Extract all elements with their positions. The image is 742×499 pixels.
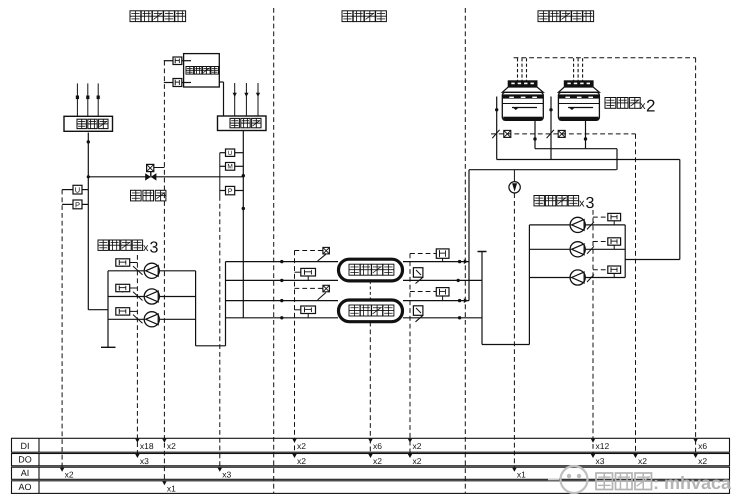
pump cooling CP1 bbox=[570, 217, 585, 232]
label table DO x2 at 370 bbox=[368, 454, 382, 466]
label table DO x3 at 593 bbox=[591, 454, 605, 466]
wire cond pipe p3 bbox=[403, 298, 469, 303]
label table DI x2 at 294 bbox=[292, 439, 306, 451]
node distributor box bbox=[64, 116, 113, 131]
svg-text:3: 3 bbox=[150, 240, 159, 257]
wire tower inlet header bbox=[497, 160, 680, 260]
pump cooling CP2 bbox=[570, 242, 585, 257]
label table DO x2 at 410 bbox=[408, 454, 422, 466]
wire tower fan drop (dashed) bbox=[695, 58, 697, 454]
svg-text:M: M bbox=[227, 164, 232, 171]
wire cooling pump CP1 discharge bbox=[585, 224, 625, 226]
wire return branch 2 bbox=[244, 83, 248, 116]
node expansion tank bbox=[184, 54, 220, 87]
wire chilled pipe p2 bbox=[226, 279, 339, 282]
chiller CH1 bbox=[339, 259, 403, 281]
svg-text:x: x bbox=[579, 198, 585, 210]
svg-text:x2: x2 bbox=[413, 441, 422, 451]
wire bypass valve control bbox=[154, 167, 165, 169]
wire cooling pump CP2 discharge bbox=[585, 248, 625, 250]
valve cond CH2 bbox=[413, 306, 423, 322]
wire pump suction header bbox=[528, 225, 530, 345]
sensor collector pressure bbox=[220, 186, 244, 195]
wire section divider left (dashed) bbox=[273, 8, 275, 493]
svg-text:x2: x2 bbox=[167, 441, 176, 451]
wire pump P2 suction bbox=[108, 296, 144, 298]
wire CT2 outlet pipe bbox=[584, 120, 587, 148]
wire cooling pumps control drop (dashed) bbox=[592, 210, 594, 454]
wire chiller control drop (dashed) bbox=[369, 322, 371, 454]
label chilled water pumps x3 bbox=[98, 240, 159, 257]
svg-text:x2: x2 bbox=[413, 456, 422, 466]
wire chilled sensors drop (dashed) bbox=[294, 251, 296, 454]
sensor supply pressure bbox=[62, 200, 88, 209]
wire chilled pipe p1 bbox=[226, 260, 339, 263]
svg-text:: mhvaca: : mhvaca bbox=[653, 473, 732, 493]
node table row AO bbox=[12, 481, 730, 494]
watermark wechat logo bbox=[548, 466, 588, 493]
sensor supply temperature bbox=[62, 185, 88, 194]
svg-text:2: 2 bbox=[646, 97, 655, 116]
wire collector sensors drop (dashed) bbox=[219, 196, 221, 467]
label table DI x6 at 696 bbox=[693, 439, 707, 451]
svg-text:x1: x1 bbox=[167, 483, 176, 493]
svg-text:x1: x1 bbox=[517, 470, 526, 480]
svg-text:x3: x3 bbox=[222, 470, 231, 480]
wire bypass pipe bbox=[87, 175, 244, 178]
wire cooling pump CP3 suction bbox=[529, 277, 570, 279]
cooling tower CT1 bbox=[502, 58, 543, 120]
svg-text:x6: x6 bbox=[698, 441, 707, 451]
wire supply sensors drop (dashed) bbox=[61, 190, 63, 468]
wire pump P1 suction bbox=[108, 270, 144, 272]
cooling tower CT2 bbox=[558, 58, 599, 120]
wire CT1 outlet pipe bbox=[533, 120, 536, 148]
label bypass valve bbox=[131, 190, 166, 201]
wire return header bbox=[242, 131, 245, 318]
svg-text:x2: x2 bbox=[65, 470, 74, 480]
wire chilled pipe p3 bbox=[226, 299, 339, 302]
svg-text:P: P bbox=[75, 200, 80, 209]
valve bypass V1 bbox=[145, 164, 156, 180]
wire supply header bbox=[87, 133, 90, 310]
pump chilled P3 bbox=[144, 312, 159, 327]
svg-text:DO: DO bbox=[18, 455, 32, 465]
label table DO x2 at 294 bbox=[292, 454, 306, 466]
valve CT1 inlet bbox=[492, 130, 511, 138]
wire CT2 inlet pipe bbox=[549, 97, 552, 160]
wire collector sensors drop bbox=[219, 153, 221, 196]
wire tower valve drop (dashed) bbox=[635, 134, 637, 454]
svg-text:U: U bbox=[75, 186, 80, 195]
wire valve control dashed 2 bbox=[295, 287, 323, 289]
label table DO x2 at 636 bbox=[633, 454, 647, 466]
wire cond pipe p1 bbox=[403, 259, 469, 264]
wire chilled pump drop (dashed) bbox=[136, 255, 138, 454]
sensor collector sensor2 bbox=[220, 163, 244, 171]
wire tower outlet header bbox=[535, 149, 617, 170]
wire cond sensors drop (dashed) bbox=[409, 254, 411, 454]
wire pump P3 suction bbox=[108, 318, 144, 320]
label title cooling water loop bbox=[538, 11, 594, 22]
label table AI x1 at 514 bbox=[512, 468, 526, 480]
valve cond CH1 bbox=[413, 268, 423, 284]
label title chilled water loop bbox=[130, 11, 186, 22]
pump chilled P1 bbox=[144, 263, 159, 278]
wire chiller left riser bbox=[225, 262, 227, 346]
label title cold source section bbox=[342, 11, 386, 22]
wire pump P3 discharge bbox=[159, 318, 195, 320]
wire cooling pump CP2 suction bbox=[529, 248, 570, 250]
node table row DO bbox=[12, 454, 730, 466]
valve chilled CH2 inlet bbox=[318, 285, 330, 300]
wire valve control dashed 1 bbox=[295, 250, 323, 252]
svg-text:x2: x2 bbox=[373, 456, 382, 466]
svg-text:3: 3 bbox=[586, 195, 595, 212]
wire CT1 inlet pipe bbox=[495, 97, 498, 160]
sensor flow switch cooling pump 3 bbox=[587, 266, 621, 282]
label table DI x6 at 370 bbox=[368, 439, 382, 451]
wire cooling discharge manifold bbox=[624, 225, 626, 278]
svg-text:AO: AO bbox=[18, 482, 31, 492]
wire return branch 3 bbox=[256, 83, 260, 116]
pump chilled P2 bbox=[144, 289, 159, 304]
svg-text:x2: x2 bbox=[638, 456, 647, 466]
svg-text:x3: x3 bbox=[596, 456, 605, 466]
wire tank outlet bbox=[219, 82, 223, 116]
wire tower fans control (dashed) bbox=[514, 57, 696, 59]
valve chilled CH1 inlet bbox=[318, 247, 330, 261]
label table DI x12 at 593 bbox=[591, 439, 610, 451]
watermark text bbox=[596, 473, 732, 493]
wire supply branch 1 bbox=[76, 83, 79, 116]
label table AI x3 at 220 bbox=[218, 468, 232, 480]
label table DO x3 at 137 bbox=[135, 454, 149, 466]
svg-text:x2: x2 bbox=[698, 456, 707, 466]
sensor flow switch chilled pump 2 bbox=[116, 284, 143, 300]
sensor flow switch chilled pump 1 bbox=[116, 259, 143, 275]
sensor flow switch cooling pump 2 bbox=[587, 238, 621, 254]
sensor flow switch CH1 evap bbox=[295, 268, 316, 280]
svg-text:x3: x3 bbox=[140, 456, 149, 466]
wire supply branch 3 bbox=[97, 83, 100, 116]
label cooling water pumps x3 bbox=[534, 195, 595, 212]
svg-text:P: P bbox=[228, 186, 233, 195]
wire cond return header bbox=[478, 252, 530, 345]
svg-text:DI: DI bbox=[21, 441, 30, 451]
pump cooling CP3 bbox=[570, 270, 585, 285]
chiller CH2 bbox=[339, 300, 403, 322]
label table DI x18 at 137 bbox=[135, 439, 154, 451]
svg-text:x12: x12 bbox=[596, 441, 610, 451]
label table AO x1 at 164 bbox=[162, 481, 176, 493]
sensor collector temperature bbox=[220, 149, 244, 157]
wire cond pipe p2 bbox=[403, 279, 482, 282]
svg-text:x2: x2 bbox=[297, 441, 306, 451]
label table DI x2 at 410 bbox=[408, 439, 422, 451]
label table AI x2 at 62 bbox=[60, 468, 74, 480]
sensor tank level low bbox=[164, 79, 191, 87]
wire discharge collector bbox=[196, 271, 226, 346]
meter flow FM1 bbox=[509, 170, 520, 468]
wire supply branch 2 bbox=[86, 83, 89, 116]
sensor tank level high bbox=[164, 57, 191, 65]
svg-text:AI: AI bbox=[21, 468, 30, 478]
svg-text:x18: x18 bbox=[140, 441, 154, 451]
label cooling towers x2 bbox=[605, 97, 655, 116]
wire chilled pipe p4 bbox=[226, 316, 339, 319]
wire tower valves control (dashed) bbox=[491, 133, 636, 135]
wire pump P1 discharge bbox=[159, 270, 195, 272]
wire pump P2 discharge bbox=[159, 296, 195, 298]
wire tank/bypass drop (dashed) bbox=[163, 61, 165, 481]
wire cooling pump CP1 suction bbox=[529, 224, 570, 226]
wire return branch 1 bbox=[233, 83, 237, 116]
node collector box bbox=[218, 116, 267, 131]
wire suction jog bbox=[88, 271, 115, 348]
label table DI x2 at 164 bbox=[162, 439, 176, 451]
valve CT2 inlet bbox=[547, 130, 566, 138]
label table DO x2 at 696 bbox=[693, 454, 707, 466]
wire section divider right (dashed) bbox=[464, 8, 466, 493]
svg-text:x2: x2 bbox=[297, 456, 306, 466]
sensor flow switch CH2 cond bbox=[410, 288, 449, 301]
svg-text:x: x bbox=[143, 242, 149, 254]
wire cooling pump CP3 discharge bbox=[585, 277, 625, 279]
sensor flow switch chilled pump 3 bbox=[116, 308, 143, 324]
node table row DI bbox=[12, 438, 730, 452]
sensor flow switch CH2 evap bbox=[295, 306, 316, 318]
sensor flow switch cooling pump 1 bbox=[587, 213, 621, 229]
wire tower supply riser bbox=[469, 170, 617, 301]
wire cond pipe p4 bbox=[403, 316, 482, 319]
svg-text:U: U bbox=[228, 150, 232, 157]
node table row AI bbox=[12, 467, 730, 479]
svg-text:x6: x6 bbox=[373, 441, 382, 451]
wire chiller interconnect (dashed) bbox=[369, 281, 371, 300]
sensor flow switch CH1 cond bbox=[410, 249, 449, 262]
